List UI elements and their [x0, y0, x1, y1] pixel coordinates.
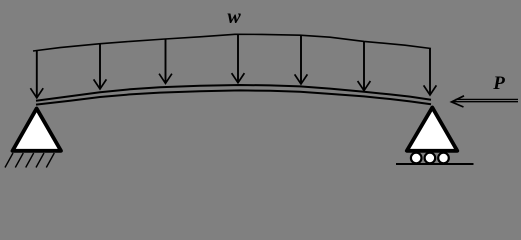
svg-text:P: P: [492, 73, 505, 94]
svg-text:w: w: [227, 6, 241, 28]
